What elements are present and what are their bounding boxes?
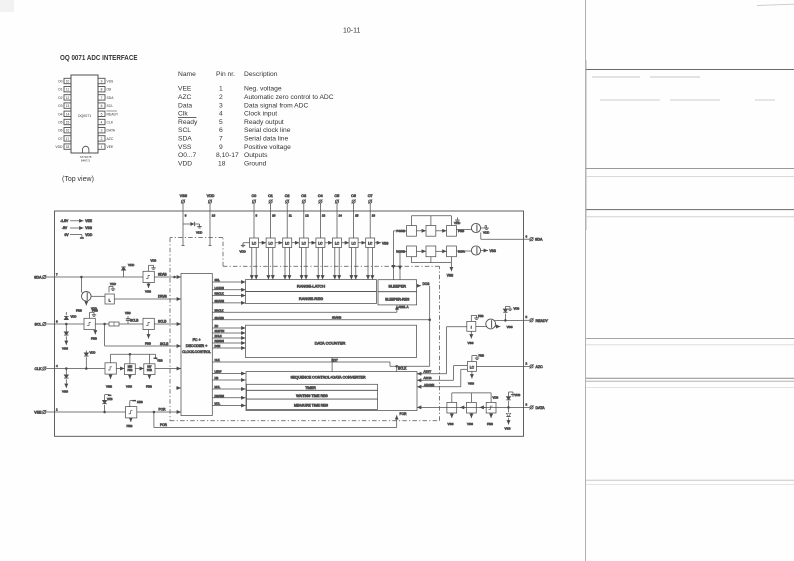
svg-text:SCL: SCL [107,104,114,108]
svg-text:13: 13 [322,214,326,218]
svg-text:Pin nr.: Pin nr. [216,71,235,78]
svg-text:SDA: SDA [34,276,42,280]
svg-text:LABEL A: LABEL A [397,305,409,309]
svg-text:CLK: CLK [35,367,43,371]
svg-text:O5: O5 [58,121,63,125]
svg-text:3: 3 [101,129,103,133]
svg-text:POR: POR [400,412,408,416]
svg-text:9: 9 [101,80,103,84]
svg-text:NGR: NGR [458,250,466,254]
svg-text:L: L [109,298,111,302]
svg-text:15: 15 [66,121,70,125]
svg-text:AZCBN: AZCBN [424,383,434,387]
svg-text:VEE: VEE [85,219,92,223]
svg-text:LC: LC [335,242,340,246]
svg-text:VSS: VSS [448,422,454,426]
svg-text:8487/1: 8487/1 [81,159,91,163]
svg-text:O3: O3 [301,194,306,198]
svg-text:8: 8 [101,88,103,92]
svg-text:10-11: 10-11 [343,28,360,35]
svg-text:AZCB: AZCB [424,376,432,380]
svg-text:VSS: VSS [62,390,68,394]
svg-text:VDD: VDD [91,307,97,311]
svg-text:1: 1 [219,86,223,93]
svg-text:18: 18 [212,214,216,218]
svg-text:RRCLK: RRCLK [215,292,224,296]
svg-text:LC: LC [470,366,475,370]
svg-text:VDD: VDD [240,250,247,254]
svg-text:Data signal from ADC: Data signal from ADC [244,102,308,109]
svg-text:DRVB: DRVB [158,295,167,299]
svg-text:(Top view): (Top view) [62,176,94,183]
svg-text:Clk: Clk [178,111,188,118]
svg-text:FBB: FBB [487,422,493,426]
svg-text:VSS: VSS [447,274,453,278]
svg-text:15: 15 [355,214,359,218]
svg-text:O0: O0 [252,194,257,198]
svg-text:O2: O2 [285,194,290,198]
svg-text:CLK: CLK [215,358,220,362]
svg-text:HBB: HBB [137,400,143,404]
svg-text:OQ0071: OQ0071 [78,114,92,118]
svg-text:VSS: VSS [382,241,388,245]
svg-text:AZST: AZST [424,370,432,374]
svg-text:VDD: VDD [454,221,461,225]
svg-text:0V: 0V [65,233,70,237]
svg-text:8,10-17: 8,10-17 [216,152,239,159]
svg-text:O2: O2 [58,96,63,100]
svg-text:VDD: VDD [55,145,63,149]
svg-text:FBB: FBB [479,354,485,358]
svg-text:VBB: VBB [106,385,112,389]
svg-text:VSS: VSS [126,385,132,389]
svg-text:MCL: MCL [215,385,221,389]
svg-text:VSS: VSS [107,80,115,84]
svg-text:VDD: VDD [196,231,203,235]
svg-text:Data: Data [178,102,192,109]
svg-text:-5V: -5V [62,226,68,230]
svg-text:SDAHB: SDAHB [332,316,341,320]
svg-text:16: 16 [372,214,376,218]
svg-text:LC: LC [252,242,257,246]
svg-text:1: 1 [56,408,58,412]
svg-text:READY: READY [536,319,549,323]
svg-text:SDAHB: SDAHB [215,316,224,320]
svg-text:9: 9 [185,214,187,218]
svg-text:VDD: VDD [128,263,135,267]
svg-text:1: 1 [101,145,103,149]
svg-text:DOS: DOS [423,282,430,286]
svg-text:SDAB: SDAB [158,273,167,277]
svg-text:RANGE-REG: RANGE-REG [299,296,323,301]
svg-text:7: 7 [101,96,103,100]
svg-text:HB: HB [215,376,219,380]
svg-text:VSS: VSS [62,347,68,351]
svg-text:Ready output: Ready output [244,119,284,126]
svg-text:BCLK: BCLK [398,367,407,371]
svg-text:VDB: VDB [514,307,520,311]
svg-text:SCL: SCL [178,127,191,134]
svg-text:O4: O4 [318,194,323,198]
svg-text:VSS: VSS [507,325,513,329]
svg-text:BRCLK: BRCLK [215,308,224,312]
svg-text:VSS: VSS [178,144,192,151]
svg-text:VSS: VSS [490,249,496,253]
svg-text:LC: LC [318,242,323,246]
svg-text:DSN: DSN [215,344,221,348]
svg-text:LC: LC [302,242,307,246]
svg-text:VEE: VEE [178,86,192,93]
svg-text:SRL: SRL [215,278,221,282]
svg-text:OQ 0071 ADC INTERFACE: OQ 0071 ADC INTERFACE [60,53,138,62]
svg-text:LC: LC [285,242,290,246]
svg-text:6: 6 [219,127,223,134]
svg-text:O1: O1 [58,88,63,92]
svg-text:Neg. voltage: Neg. voltage [244,86,282,93]
svg-text:SCLB: SCLB [160,342,168,346]
svg-text:VSS: VSS [85,226,92,230]
svg-text:AZC: AZC [536,365,544,369]
svg-text:O0: O0 [58,80,63,84]
svg-text:17: 17 [66,137,70,141]
svg-text:POR: POR [160,423,168,427]
svg-text:VSS: VSS [145,290,151,294]
svg-text:I²C +: I²C + [193,338,201,342]
svg-text:VDB: VDB [493,396,499,400]
svg-text:VSS: VSS [468,341,474,345]
svg-text:3: 3 [219,102,223,109]
svg-text:VDB: VDB [515,393,521,397]
svg-text:FBB: FBB [145,341,151,345]
svg-text:Ready: Ready [178,119,198,126]
svg-text:VBB: VBB [125,311,131,315]
svg-text:VZB: VZB [107,397,113,401]
svg-text:7: 7 [219,136,223,143]
svg-text:POR: POR [159,407,167,411]
svg-text:MEASURE TIME REG: MEASURE TIME REG [294,403,328,407]
svg-text:LC: LC [368,242,373,246]
svg-text:LOADN: LOADN [215,286,224,290]
svg-text:SCLB: SCLB [130,319,138,323]
svg-text:BLEEPER-REG: BLEEPER-REG [385,297,409,301]
svg-text:CLOCK-CONTROL: CLOCK-CONTROL [182,350,211,354]
svg-text:DECODER +: DECODER + [186,344,208,348]
svg-text:Name: Name [178,71,196,78]
svg-text:VDD: VDD [90,351,96,355]
svg-text:DBANN: DBANN [215,394,224,398]
svg-text:VSS: VSS [468,382,474,386]
svg-text:RESBN: RESBN [215,339,224,343]
svg-text:VEE: VEE [107,145,115,149]
svg-text:SDA: SDA [535,238,543,242]
svg-text:BLEEPER: BLEEPER [389,285,407,289]
svg-text:5: 5 [219,119,223,126]
svg-text:SCL: SCL [35,323,42,327]
svg-text:Positive voltage: Positive voltage [244,144,291,151]
svg-text:O7: O7 [368,194,373,198]
svg-text:6: 6 [526,235,528,239]
svg-text:4: 4 [101,121,103,125]
svg-text:AZC: AZC [107,137,114,141]
svg-text:DATA COUNTER: DATA COUNTER [315,341,346,346]
svg-text:AZC: AZC [178,94,192,101]
svg-text:SDAUN: SDAUN [215,299,224,303]
svg-text:2: 2 [101,137,103,141]
svg-text:LC: LC [268,242,273,246]
svg-text:6: 6 [101,104,103,108]
svg-text:8: 8 [256,214,258,218]
svg-text:18: 18 [218,160,226,167]
svg-text:12: 12 [305,214,309,218]
svg-text:O5: O5 [335,194,340,198]
svg-text:VDD: VDD [85,233,93,237]
svg-text:7: 7 [56,273,58,277]
svg-text:YBB: YBB [157,359,163,363]
svg-text:13: 13 [66,104,70,108]
svg-text:RANGE-LATCH: RANGE-LATCH [297,284,325,289]
svg-text:4: 4 [219,111,223,118]
svg-text:CLK: CLK [107,121,114,125]
svg-text:5: 5 [101,112,103,116]
svg-text:2: 2 [526,362,528,366]
svg-text:LERF: LERF [215,370,222,374]
svg-text:4: 4 [56,364,58,368]
svg-text:MCL: MCL [215,402,221,406]
svg-text:Serial clock line: Serial clock line [244,127,291,134]
svg-text:O7: O7 [58,137,63,141]
svg-text:FBB: FBB [146,385,152,389]
svg-text:11: 11 [289,214,292,218]
svg-text:I: I [471,325,472,329]
svg-text:6: 6 [56,320,58,324]
svg-text:14: 14 [339,214,343,218]
svg-text:3: 3 [526,403,528,407]
svg-text:Clock input: Clock input [244,111,277,118]
svg-text:11: 11 [66,88,70,92]
svg-text:VDB: VDB [151,259,157,263]
svg-text:12: 12 [66,96,70,100]
svg-text:9: 9 [219,144,223,151]
svg-text:PER: PER [147,369,152,372]
svg-text:O6: O6 [351,194,356,198]
svg-text:Ground: Ground [244,160,267,167]
svg-text:READY: READY [107,112,119,116]
svg-text:DATA: DATA [107,129,116,133]
svg-text:O6: O6 [58,129,63,133]
svg-text:O1: O1 [268,194,273,198]
svg-text:O3: O3 [58,104,63,108]
svg-text:SDA: SDA [107,96,115,100]
svg-text:5: 5 [526,315,528,319]
svg-text:VEE: VEE [34,411,42,415]
svg-text:VDD: VDD [71,315,77,319]
svg-text:PER: PER [127,369,132,372]
svg-text:VDD: VDD [483,231,490,235]
svg-text:O0...7: O0...7 [178,152,196,159]
svg-text:O8: O8 [107,88,112,92]
svg-text:ZO: ZO [215,324,219,328]
svg-text:SEQUENCE CONTROL+DATA CONVERTE: SEQUENCE CONTROL+DATA CONVERTER [290,375,365,379]
svg-text:VSS: VSS [467,422,473,426]
svg-text:SHIFTN: SHIFTN [215,329,225,333]
svg-text:Serial data line: Serial data line [244,136,289,143]
svg-text:VDD: VDD [207,194,215,198]
svg-text:ZCLN: ZCLN [215,334,222,338]
svg-text:2: 2 [219,94,223,101]
svg-text:-1.5V: -1.5V [60,219,69,223]
svg-text:10: 10 [272,214,276,218]
svg-text:FBB: FBB [76,309,82,313]
svg-text:VSS: VSS [505,427,511,431]
svg-text:DATA: DATA [536,406,546,410]
svg-text:Outputs: Outputs [244,152,268,159]
svg-text:O4: O4 [58,112,63,116]
svg-text:18: 18 [66,145,70,149]
svg-text:SCLB: SCLB [158,320,166,324]
svg-text:Automatic zero control to ADC: Automatic zero control to ADC [244,94,334,101]
svg-text:14: 14 [66,112,70,116]
svg-text:LC: LC [351,242,356,246]
svg-text:16: 16 [66,129,70,133]
svg-text:VSS: VSS [180,194,188,198]
svg-text:VDD: VDD [110,282,116,286]
svg-text:TIMER: TIMER [305,386,316,390]
svg-text:Description: Description [244,71,278,78]
svg-text:FBB: FBB [127,424,133,428]
svg-text:SDA: SDA [178,136,192,143]
svg-text:WAITING TIME REG: WAITING TIME REG [296,394,328,398]
svg-text:FBB: FBB [478,314,484,318]
svg-text:10: 10 [66,80,70,84]
svg-text:FBB: FBB [91,337,97,341]
svg-text:VDD: VDD [178,160,192,167]
